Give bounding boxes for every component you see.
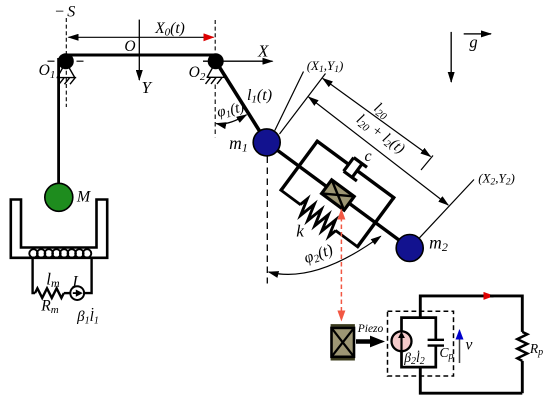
wire resistor to source xyxy=(64,292,71,294)
support hatching under O1 xyxy=(57,62,77,84)
spring-damper-piezo assembly rotated xyxy=(244,111,433,279)
mass m2 xyxy=(396,235,423,262)
svg-text:O2: O2 xyxy=(189,64,206,83)
bottom wire xyxy=(420,367,522,393)
bar O1-O2 (sliding rod) xyxy=(64,54,217,57)
wire dashed vertical through O1 xyxy=(65,18,67,107)
resistor Rp xyxy=(517,332,527,361)
svg-text:β2l̇2: β2l̇2 xyxy=(403,350,425,367)
svg-text:k: k xyxy=(296,222,304,241)
dashed box xyxy=(388,311,454,376)
rod O1 to mass M xyxy=(57,58,60,185)
axis Y xyxy=(138,20,140,80)
inner top wire xyxy=(402,318,436,340)
damper c lead xyxy=(316,140,349,164)
resistor Rm zigzag xyxy=(35,288,64,298)
svg-text:(X2,Y2): (X2,Y2) xyxy=(478,171,515,188)
svg-text:O: O xyxy=(124,38,135,55)
svg-text:m2: m2 xyxy=(429,233,448,255)
leader m2 to (X2,Y2) xyxy=(420,180,475,238)
svg-text:X: X xyxy=(257,42,269,61)
frame right plate xyxy=(357,198,393,247)
svg-text:φ2(t): φ2(t) xyxy=(302,241,336,268)
dimension X0(t) xyxy=(69,36,214,38)
dimension l20+l2(t) xyxy=(309,97,449,205)
dimension l20 xyxy=(323,79,431,157)
right wire to resistor xyxy=(521,295,524,332)
piezo box mechanical xyxy=(322,180,355,210)
source circle beta2 l2dot xyxy=(392,331,412,351)
svg-text:Cp: Cp xyxy=(439,345,453,362)
wire dashed vertical through O2 top xyxy=(214,20,216,52)
svg-text:φ1(t): φ1(t) xyxy=(216,99,247,122)
svg-text:c: c xyxy=(364,148,371,165)
axis X xyxy=(203,60,273,62)
outer circuit top wire xyxy=(420,296,493,318)
svg-text:l1(t): l1(t) xyxy=(247,87,272,106)
svg-text:I: I xyxy=(71,274,78,291)
svg-text:l20: l20 xyxy=(370,100,393,123)
pivot O1 xyxy=(58,53,74,69)
right wire below resistor xyxy=(521,361,524,393)
svg-text:−S: −S xyxy=(54,4,75,21)
svg-text:O1: O1 xyxy=(39,62,56,81)
gravity g arrows xyxy=(450,32,452,82)
coil lm xyxy=(29,249,91,257)
arc phi2 xyxy=(269,236,381,274)
svg-text:Rm: Rm xyxy=(40,298,58,317)
svg-text:v: v xyxy=(466,337,473,354)
arc phi1 xyxy=(216,115,246,124)
support hatching under O2 xyxy=(206,62,227,84)
svg-text:Y: Y xyxy=(142,78,153,97)
arrow v xyxy=(459,331,461,364)
link l1: O2 to m1 xyxy=(216,61,267,142)
spring k leads xyxy=(280,189,301,205)
magnet cup xyxy=(11,200,107,258)
spring k zigzag xyxy=(295,198,340,238)
mass M green xyxy=(45,183,73,211)
svg-text:g: g xyxy=(469,33,477,52)
wire source to right, up to cup xyxy=(84,258,92,293)
rod piezo to m2 xyxy=(348,202,410,248)
extension line from m1 perpendicular xyxy=(280,74,326,135)
frame left plate xyxy=(281,141,317,190)
damper c cup xyxy=(344,158,367,181)
capacitor Cp plates xyxy=(428,339,444,341)
current source I circle xyxy=(70,286,84,300)
tick end of l20 xyxy=(421,156,433,171)
svg-text:M: M xyxy=(76,189,92,206)
piezo icon box xyxy=(332,328,355,357)
svg-text:Rp: Rp xyxy=(529,341,543,358)
svg-text:Piezo: Piezo xyxy=(357,323,384,335)
inner bottom wire xyxy=(402,346,436,368)
red dashed connector piezo xyxy=(340,210,342,321)
svg-text:X0(t): X0(t) xyxy=(154,20,185,39)
svg-text:m1: m1 xyxy=(229,133,248,155)
wire left of Rm loop xyxy=(33,258,35,293)
piezo icon plates xyxy=(331,324,355,327)
mass m1 xyxy=(253,129,280,156)
svg-text:β1l̇1: β1l̇1 xyxy=(76,308,99,326)
svg-text:lm: lm xyxy=(46,270,60,291)
wire dashed vertical below m1 xyxy=(266,157,268,284)
svg-text:(X1,Y1): (X1,Y1) xyxy=(307,58,344,75)
wire dashed vertical below O2 xyxy=(214,85,216,138)
leader m1 to (X1,Y1) xyxy=(275,72,304,131)
centerline through O1 xyxy=(48,60,86,62)
rod m1 to piezo xyxy=(267,142,328,187)
fat arrow xyxy=(356,336,385,348)
pivot O2 xyxy=(208,53,224,69)
damper c piston xyxy=(353,165,362,177)
